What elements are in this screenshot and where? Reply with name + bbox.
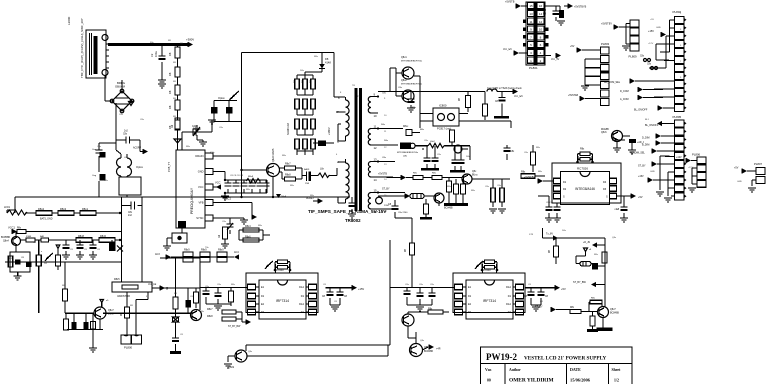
- svg-text:+5VSTB: +5VSTB: [505, 1, 515, 4]
- svg-text:PL809: PL809: [629, 55, 638, 59]
- svg-text:BAT5_GND: BAT5_GND: [40, 218, 53, 221]
- svg-text:SYNC: SYNC: [196, 216, 203, 220]
- svg-text:R8: R8: [168, 52, 172, 56]
- svg-text:C8 C8: C8 C8: [546, 202, 553, 204]
- svg-text:R8x9: R8x9: [184, 249, 190, 252]
- svg-text:RC7026: RC7026: [577, 167, 588, 171]
- svg-text:DRAIN: DRAIN: [195, 154, 203, 158]
- svg-text:+5V: +5V: [734, 167, 739, 170]
- svg-text:A_COM: A_COM: [620, 98, 629, 101]
- svg-text:R8x3: R8x3: [60, 207, 67, 211]
- svg-text:+15V: +15V: [688, 167, 694, 169]
- svg-text:R8x9: R8x9: [248, 176, 254, 178]
- svg-text:LF01: LF01: [4, 205, 10, 209]
- svg-text:BUxx: BUxx: [472, 175, 478, 177]
- svg-text:R8x9: R8x9: [218, 249, 224, 252]
- svg-text:BAJ9: BAJ9: [304, 168, 310, 171]
- svg-text:ST_BY: ST_BY: [535, 306, 543, 309]
- svg-text:IRF7314: IRF7314: [276, 299, 289, 303]
- svg-text:+5V: +5V: [638, 196, 643, 199]
- svg-text:+5VSTBY: +5VSTBY: [601, 23, 612, 26]
- svg-text:2200: 2200: [384, 205, 390, 207]
- svg-text:Author: Author: [509, 368, 521, 372]
- svg-text:+5VSTBY: +5VSTBY: [524, 176, 535, 179]
- svg-text:BC846B: BC846B: [610, 312, 619, 315]
- svg-text:GND: GND: [656, 27, 661, 29]
- svg-text:Vcc_5V: Vcc_5V: [551, 58, 560, 61]
- svg-text:VCC: VCC: [198, 185, 204, 189]
- svg-text:GND: GND: [650, 171, 655, 173]
- svg-text:+5VSTB: +5VSTB: [378, 173, 387, 176]
- svg-text:Q8x1: Q8x1: [401, 56, 407, 59]
- svg-text:ST_BY_BW: ST_BY_BW: [573, 281, 586, 284]
- svg-text:R8x4: R8x4: [245, 225, 251, 228]
- svg-text:+12V: +12V: [648, 43, 654, 45]
- svg-text:Vsn: Vsn: [485, 368, 492, 372]
- svg-text:PW19-2: PW19-2: [486, 352, 517, 362]
- svg-text:D8xx: D8xx: [403, 126, 409, 128]
- svg-text:+4R: +4R: [436, 348, 441, 351]
- svg-text:+5V: +5V: [561, 287, 566, 291]
- svg-text:OMER YILDIRIM: OMER YILDIRIM: [509, 378, 554, 384]
- svg-text:R8x7: R8x7: [285, 163, 291, 166]
- svg-text:00: 00: [487, 379, 491, 383]
- svg-text:PL807: PL807: [754, 162, 763, 166]
- svg-text:INTEG8/A146: INTEG8/A146: [575, 187, 595, 191]
- svg-text:ACDRV: ACDRV: [133, 147, 141, 150]
- svg-text:Vcc_left: Vcc_left: [503, 48, 512, 51]
- svg-text:D1A: D1A: [299, 303, 304, 306]
- svg-text:VESTEL LCD 21' POWER SUPPLY: VESTEL LCD 21' POWER SUPPLY: [524, 356, 607, 362]
- svg-text:VARISTOR: VARISTOR: [117, 294, 130, 298]
- svg-text:D1A: D1A: [506, 286, 511, 289]
- svg-text:15: 15: [529, 4, 533, 8]
- svg-text:11: 11: [529, 20, 532, 24]
- svg-text:MTP4N60E/BDF706x: MTP4N60E/BDF706x: [401, 61, 423, 63]
- svg-text:PL806: PL806: [692, 153, 701, 157]
- svg-text:13: 13: [529, 12, 533, 16]
- svg-text:Optox: Optox: [136, 165, 144, 169]
- svg-text:AD_DIM_SEL: AD_DIM_SEL: [630, 152, 646, 155]
- svg-text:C2: C2: [150, 53, 154, 57]
- svg-text:4148: 4148: [325, 61, 331, 65]
- svg-text:16: 16: [539, 4, 543, 8]
- svg-text:B_DIM: B_DIM: [642, 144, 649, 147]
- svg-text:D_DIM: D_DIM: [642, 137, 649, 140]
- svg-text:Sheet: Sheet: [612, 368, 622, 372]
- svg-text:R8x1: R8x1: [82, 207, 89, 211]
- svg-text:+12V: +12V: [676, 156, 682, 159]
- svg-text:BL_ON/OFF: BL_ON/OFF: [634, 109, 648, 112]
- svg-text:BC846B: BC846B: [444, 208, 453, 210]
- svg-text:10: 10: [374, 114, 378, 118]
- svg-text:12: 12: [539, 20, 543, 24]
- svg-text:Optox: Optox: [218, 97, 225, 100]
- svg-text:12: 12: [374, 146, 378, 150]
- svg-text:+5V: +5V: [570, 45, 575, 48]
- svg-text:PL803: PL803: [601, 42, 610, 46]
- svg-text:MTP4N60E/BDF706x: MTP4N60E/BDF706x: [397, 152, 419, 154]
- svg-text:RCE5B: RCE5B: [601, 129, 609, 131]
- svg-text:IRF7314: IRF7314: [483, 299, 496, 303]
- svg-text:AD_COM_SEL: AD_COM_SEL: [604, 81, 621, 84]
- svg-text:TR8002: TR8002: [345, 218, 361, 223]
- svg-text:R8: R8: [168, 105, 172, 109]
- svg-text:PCB_TT: PCB_TT: [167, 162, 171, 172]
- svg-text:PL800: PL800: [124, 346, 133, 350]
- svg-text:D1A: D1A: [506, 303, 511, 306]
- svg-text:Vcc_left: Vcc_left: [514, 95, 523, 98]
- svg-text:R8x8: R8x8: [285, 174, 291, 177]
- svg-text:+15V: +15V: [648, 30, 654, 33]
- svg-text:SG6841DZ: SG6841DZ: [287, 123, 290, 135]
- svg-text:C8 C8 C8 C8: C8 C8 C8 C8: [230, 175, 244, 177]
- svg-text:D8: D8: [325, 57, 329, 61]
- svg-text:+380V: +380V: [327, 127, 331, 135]
- svg-text:100u: 100u: [154, 51, 158, 57]
- svg-text:15/06/2006: 15/06/2006: [570, 378, 591, 383]
- svg-text:R8x7: R8x7: [207, 308, 213, 311]
- svg-text:14: 14: [374, 178, 378, 182]
- svg-text:D_COM: D_COM: [620, 90, 629, 93]
- svg-text:ST_BY: ST_BY: [638, 165, 646, 168]
- svg-text:R8x5: R8x5: [114, 278, 120, 281]
- svg-text:D1A: D1A: [299, 286, 304, 289]
- svg-text:GBU4M: GBU4M: [115, 85, 126, 89]
- svg-text:1/2: 1/2: [614, 379, 619, 383]
- svg-text:14: 14: [539, 12, 543, 16]
- svg-text:DATE: DATE: [570, 367, 581, 372]
- svg-text:R8x8: R8x8: [207, 315, 213, 318]
- svg-text:ST_BY: ST_BY: [382, 188, 390, 191]
- svg-text:TIF_SMPS_SAFE_PLASMA_5V-15V: TIF_SMPS_SAFE_PLASMA_5V-15V: [308, 209, 387, 214]
- svg-text:AC4: AC4: [234, 251, 239, 254]
- svg-text:C8x 2200: C8x 2200: [398, 212, 408, 214]
- svg-text:GND: GND: [737, 181, 742, 183]
- svg-text:R8: R8: [168, 90, 172, 94]
- svg-text:R8x6: R8x6: [245, 236, 251, 239]
- svg-text:AC3: AC3: [155, 253, 160, 256]
- svg-text:L8x2: L8x2: [430, 141, 436, 143]
- svg-text:+D_JN: +D_JN: [583, 242, 590, 244]
- svg-text:Tx_8V: Tx_8V: [546, 233, 553, 236]
- svg-text:BL_ON/OFF: BL_ON/OFF: [645, 124, 659, 127]
- svg-text:IC800: IC800: [439, 104, 447, 108]
- svg-text:TR: TR: [352, 85, 355, 87]
- svg-text:D8x6: D8x6: [100, 235, 106, 238]
- svg-text:Vcc_LE: Vcc_LE: [148, 283, 157, 286]
- svg-text:ACDET: ACDET: [306, 197, 315, 200]
- svg-text:ST_BY_BW: ST_BY_BW: [228, 326, 241, 328]
- svg-text:Q8x6: Q8x6: [601, 132, 607, 134]
- svg-text:PL805: PL805: [673, 115, 682, 119]
- svg-text:PL801: PL801: [529, 66, 538, 70]
- svg-text:+5VSTBYB: +5VSTBYB: [574, 6, 587, 9]
- svg-text:Q8x0 K2645: Q8x0 K2645: [272, 148, 275, 162]
- svg-text:D8x2: D8x2: [38, 207, 45, 211]
- svg-text:D8x9: D8x9: [281, 196, 287, 198]
- svg-text:+380V: +380V: [186, 38, 194, 42]
- svg-text:11: 11: [374, 124, 377, 128]
- svg-text:+5V: +5V: [650, 19, 654, 21]
- svg-text:VCC1: VCC1: [224, 197, 231, 201]
- svg-text:10: 10: [539, 28, 543, 32]
- svg-text:PRECIQ-6060&Y: PRECIQ-6060&Y: [190, 187, 194, 214]
- svg-text:Q8x2: Q8x2: [401, 79, 407, 82]
- svg-text:13: 13: [374, 157, 378, 161]
- svg-text:Cxxx/CRX to TS23 (below check: Cxxx/CRX to TS23 (below check: [487, 87, 522, 90]
- svg-text:R8x8: R8x8: [78, 235, 84, 238]
- svg-text:BAJ: BAJ: [40, 235, 44, 238]
- svg-text:L2000: L2000: [67, 16, 71, 25]
- svg-text:330R: 330R: [26, 236, 32, 238]
- svg-text:GND: GND: [198, 170, 204, 174]
- svg-text:15: 15: [374, 188, 378, 192]
- svg-text:+15V: +15V: [638, 175, 644, 178]
- svg-text:Q8x4: Q8x4: [3, 240, 9, 243]
- svg-text:BC846B: BC846B: [424, 350, 433, 353]
- svg-text:R8: R8: [168, 72, 172, 76]
- svg-text:+15V: +15V: [358, 287, 364, 291]
- svg-text:VFB: VFB: [198, 201, 203, 205]
- svg-text:VCC: VCC: [215, 181, 221, 185]
- svg-text:TBF_FTC_(CAP)_(CAP2)_(3mH)_SWF: TBF_FTC_(CAP)_(CAP2)_(3mH)_SWF_20Y: [80, 18, 84, 78]
- svg-text:+5VSTAB: +5VSTAB: [568, 94, 578, 97]
